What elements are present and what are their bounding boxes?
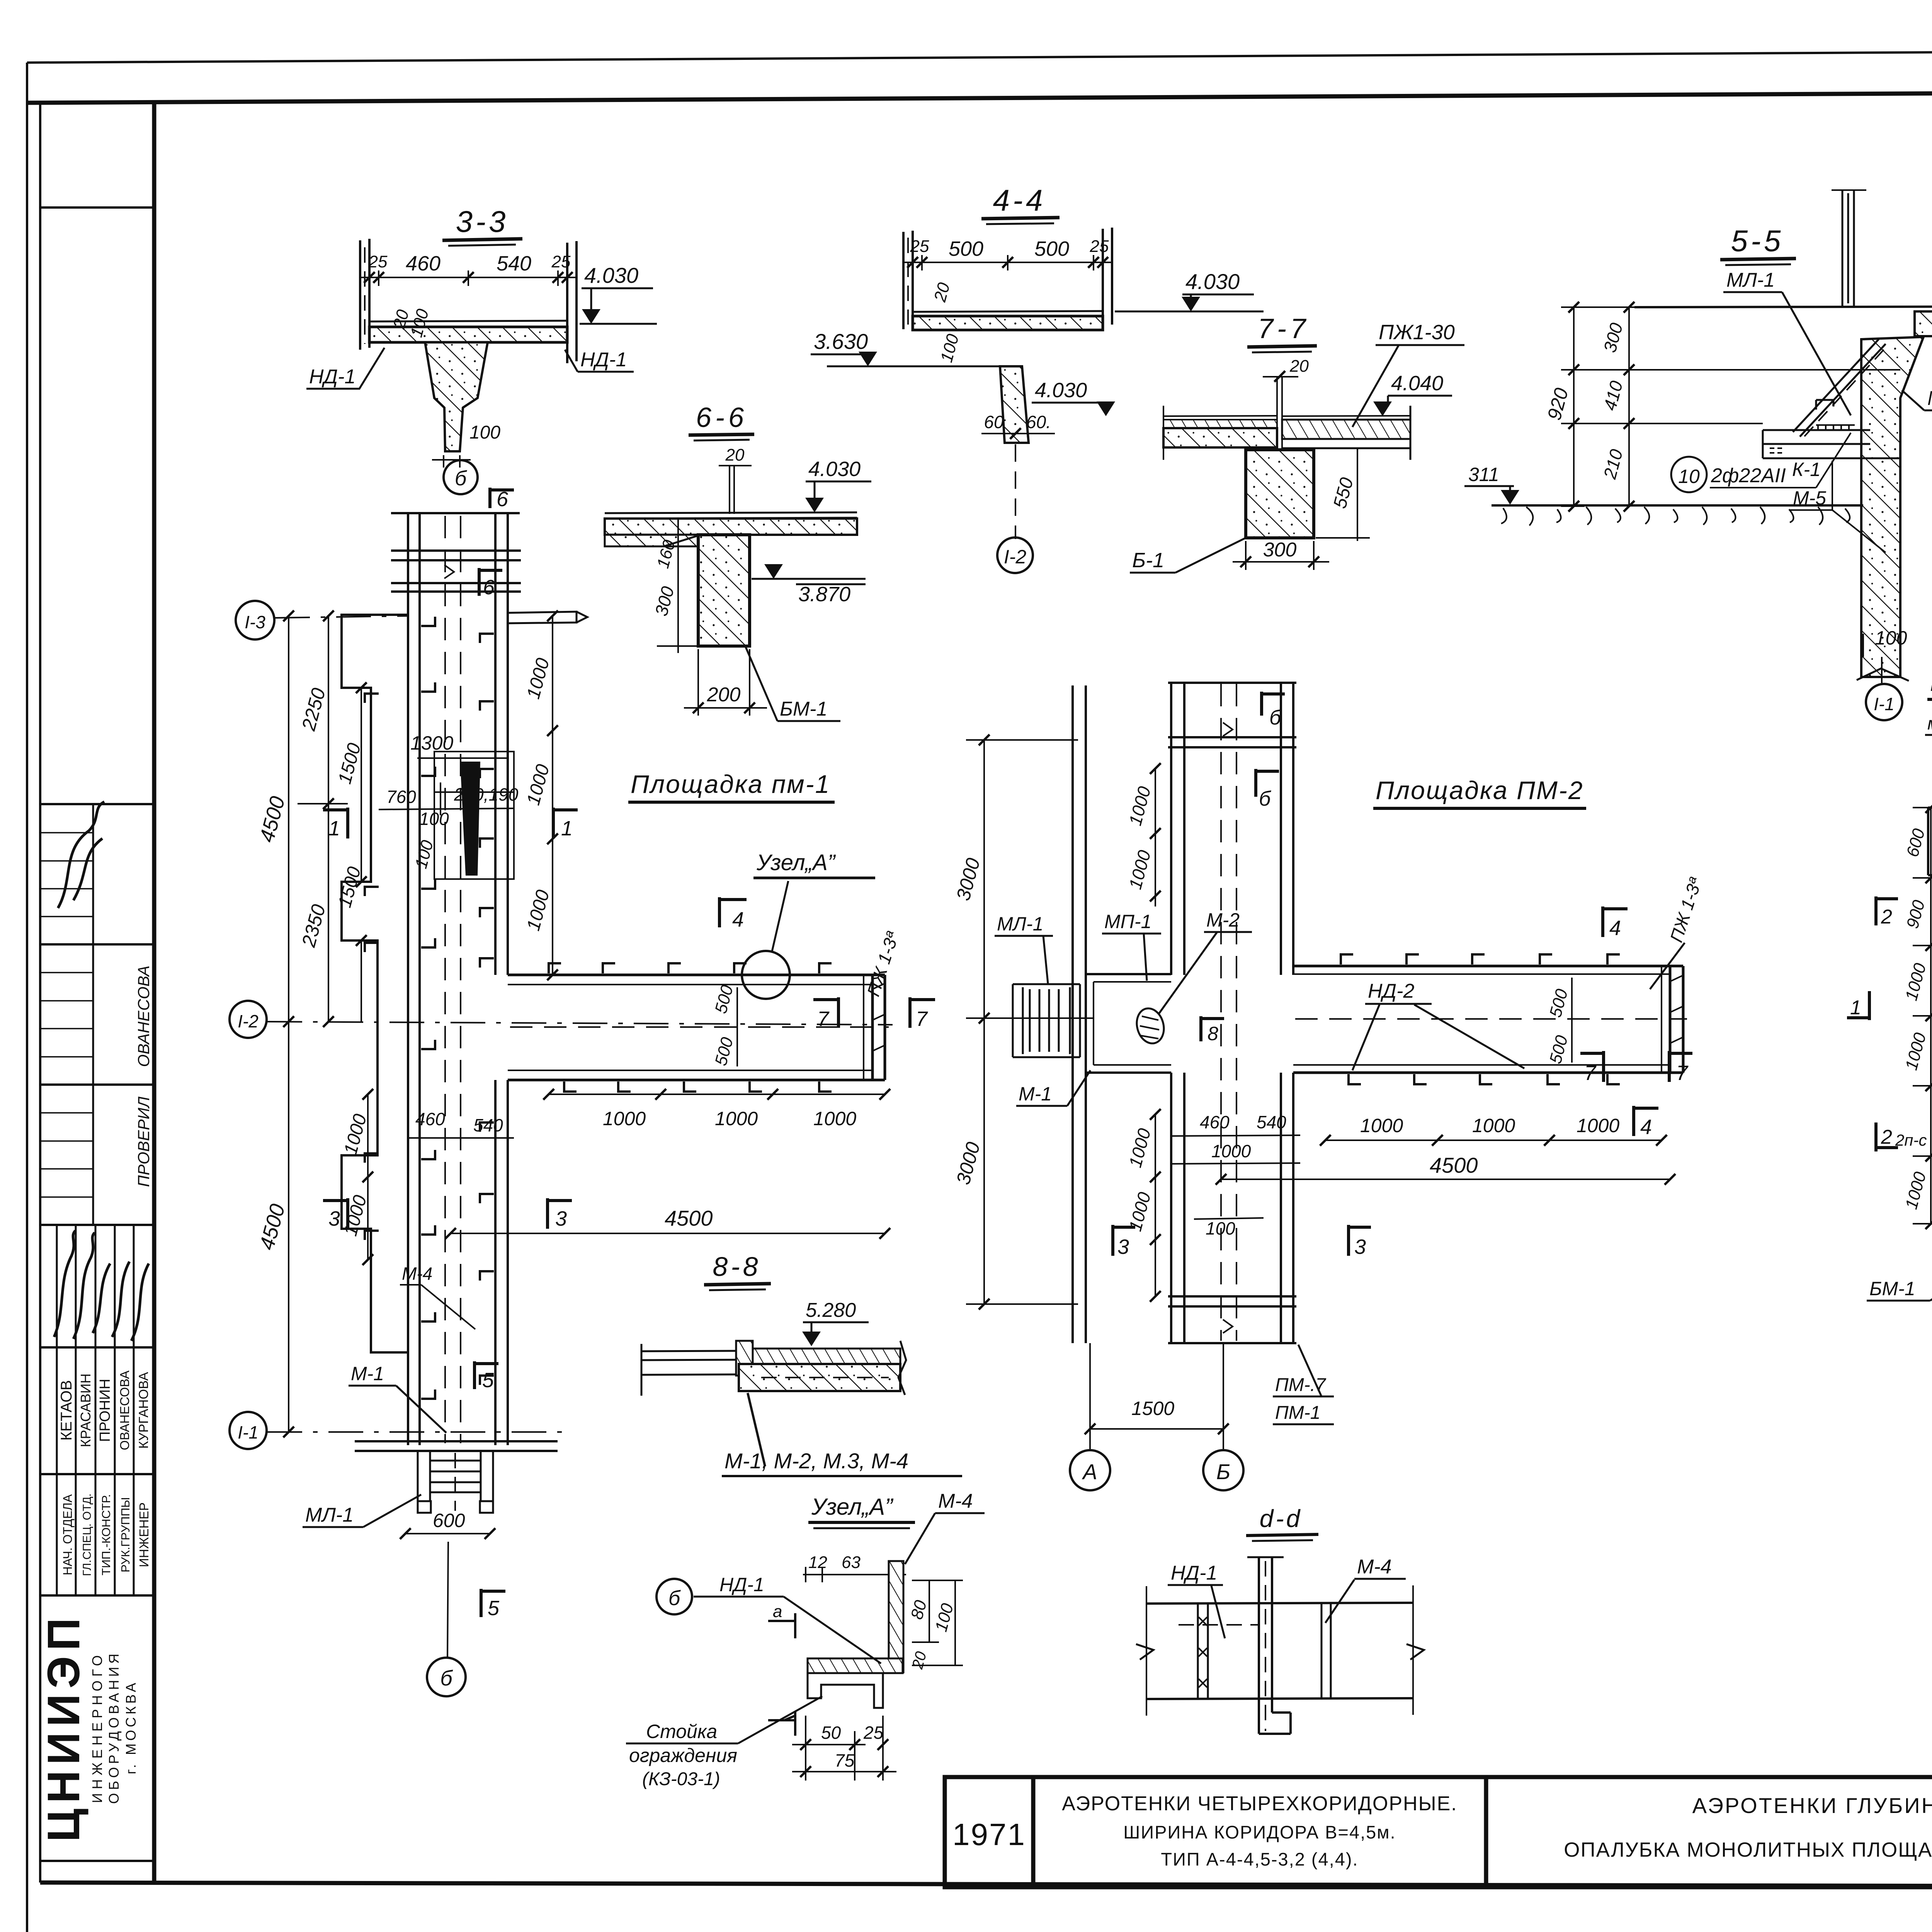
svg-text:2: 2 bbox=[1881, 1126, 1892, 1148]
svg-text:540: 540 bbox=[497, 252, 531, 275]
svg-text:500: 500 bbox=[1034, 237, 1069, 260]
svg-text:5.280: 5.280 bbox=[806, 1299, 856, 1321]
axis circle I-3 bbox=[236, 601, 274, 639]
svg-text:75: 75 bbox=[835, 1750, 855, 1770]
узел А horizontal flange НД-1 bbox=[808, 1658, 903, 1673]
plan ПМ-2 stair opening МЛ-1 bbox=[1013, 984, 1080, 1057]
plan ПМ-2 section mark 4 upper bbox=[1603, 906, 1628, 937]
svg-text:1000: 1000 bbox=[1577, 1115, 1619, 1136]
plan ПМ-3 section mark 1 marks bbox=[1847, 991, 1869, 1020]
svg-text:М-2: М-2 bbox=[1206, 909, 1240, 931]
svg-text:600: 600 bbox=[433, 1510, 465, 1531]
plan ПМ-1 section mark 7 right bbox=[910, 997, 935, 1028]
svg-text:20: 20 bbox=[1289, 357, 1309, 376]
section 5-5 wall with flare bbox=[1861, 337, 1923, 677]
svg-text:КЕТАОВ: КЕТАОВ bbox=[58, 1380, 75, 1441]
узел А channel profile bbox=[808, 1673, 883, 1708]
plan ПМ-2 landing strip bbox=[1293, 966, 1683, 1073]
svg-text:5-5: 5-5 bbox=[1731, 224, 1784, 258]
plan ПМ-1 break mark bbox=[444, 565, 454, 578]
svg-text:25: 25 bbox=[368, 252, 388, 271]
plan ПМ-2 corridor Б walls bbox=[1171, 683, 1184, 1343]
plan ПМ-2 section mark 8 bbox=[1201, 1016, 1224, 1041]
svg-text:20: 20 bbox=[725, 446, 745, 464]
plan ПМ-1 inner dim chain 1000s upper right bbox=[552, 616, 553, 975]
section 4-4 slab hatched bbox=[913, 316, 1103, 330]
узел А dims 80 100 20 bbox=[912, 1580, 963, 1665]
svg-text:7: 7 bbox=[817, 1007, 830, 1031]
svg-text:200: 200 bbox=[707, 684, 741, 706]
section 8-8 slab hatched bbox=[753, 1349, 900, 1364]
stamp signature squiggles bbox=[54, 802, 149, 1341]
svg-text:I-2: I-2 bbox=[1004, 546, 1027, 568]
svg-text:7-7: 7-7 bbox=[1258, 313, 1310, 344]
svg-text:3-3: 3-3 bbox=[456, 204, 509, 238]
svg-text:6: 6 bbox=[497, 488, 509, 511]
plan ПМ-2 section mark 4 lower bbox=[1634, 1106, 1658, 1136]
svg-text:М-4: М-4 bbox=[1357, 1556, 1392, 1578]
svg-text:М-4: М-4 bbox=[938, 1490, 973, 1512]
section d-d slab band bbox=[1146, 1603, 1413, 1699]
узел А circle б bbox=[656, 1579, 692, 1614]
svg-text:А: А bbox=[1082, 1459, 1097, 1484]
plan ПМ-1 embed hooks right wall bbox=[480, 634, 494, 1385]
svg-text:М-1: М-1 bbox=[1927, 387, 1932, 410]
svg-text:4: 4 bbox=[1609, 917, 1621, 940]
section 7-7 right slab ПЖ1-30 bbox=[1282, 416, 1410, 416]
plan ПМ-1 horizontal strip bbox=[508, 975, 885, 1080]
svg-text:7: 7 bbox=[1676, 1061, 1689, 1085]
section 5-5 dim chain 300 410 210 bbox=[1561, 307, 1900, 506]
plan ПМ-1 top cap bbox=[391, 512, 520, 514]
svg-text:РУК.ГРУППЫ: РУК.ГРУППЫ bbox=[119, 1497, 132, 1573]
section 5-5 top slab line bbox=[1634, 306, 1932, 307]
section 7-7 beam Б-1 bbox=[1246, 450, 1314, 538]
svg-text:Стойка: Стойка bbox=[646, 1721, 717, 1742]
svg-text:1000: 1000 bbox=[813, 1108, 856, 1129]
svg-text:100: 100 bbox=[469, 422, 500, 443]
section 7-7 dim 550 bbox=[1316, 448, 1370, 541]
svg-text:(КЗ-03-1): (КЗ-03-1) bbox=[642, 1769, 720, 1789]
svg-text:НД-1: НД-1 bbox=[580, 349, 627, 371]
svg-text:МП-1: МП-1 bbox=[1104, 911, 1151, 932]
svg-text:НАЧ. ОТДЕЛА: НАЧ. ОТДЕЛА bbox=[61, 1494, 75, 1575]
section 4-4 right wall bbox=[1103, 228, 1112, 327]
svg-text:5: 5 bbox=[488, 1597, 500, 1620]
section 4-4 dim line 25 500 500 25 bbox=[903, 255, 1112, 270]
svg-text:ГЛ.СПЕЦ. ОТД.: ГЛ.СПЕЦ. ОТД. bbox=[81, 1493, 94, 1576]
svg-text:ИНЖЕНЕРНОГО: ИНЖЕНЕРНОГО bbox=[89, 1651, 105, 1803]
svg-text:Площадка ПМ-3: Площадка ПМ-3 bbox=[1930, 670, 1932, 696]
svg-text:АЭРОТЕНКИ ГЛУБИНОЙ 3,2м.: АЭРОТЕНКИ ГЛУБИНОЙ 3,2м. bbox=[1692, 1793, 1932, 1818]
svg-text:Узел„А”: Узел„А” bbox=[811, 1494, 894, 1520]
plan ПМ-2 left chain 3000/3000 bbox=[966, 740, 1094, 1304]
svg-text:ПРОВЕРИЛ: ПРОВЕРИЛ bbox=[134, 1097, 153, 1187]
section 8-8 left steel deck bbox=[641, 1344, 739, 1396]
circles А Б above d-d bbox=[1090, 1406, 1223, 1449]
svg-text:М-1: М-1 bbox=[351, 1363, 384, 1384]
svg-text:4-4: 4-4 bbox=[993, 183, 1046, 217]
svg-text:ТИП.-КОНСТР.: ТИП.-КОНСТР. bbox=[99, 1494, 113, 1575]
plan ПМ-1 section mark 6 top bbox=[490, 488, 514, 508]
section 3-3 deck line bbox=[369, 321, 567, 321]
svg-text:М-1, М-2, М.3, М-4: М-1, М-2, М.3, М-4 bbox=[724, 1449, 908, 1473]
plan ПМ-3 left chain 600 900 1000 1000 1000 bbox=[1913, 808, 1932, 1224]
plan ПМ-1 right ledge at I-3 bbox=[508, 612, 587, 623]
plan ПМ-1 dim 1000x2 lower left bbox=[367, 1094, 369, 1260]
plan ПМ-1 section mark 4 upper bbox=[719, 897, 747, 927]
plan ПМ-1 section mark 5 bbox=[474, 1361, 498, 1389]
svg-text:Узел„А”: Узел„А” bbox=[756, 850, 836, 875]
plan ПМ-1 left wall bbox=[408, 513, 420, 1445]
svg-text:ПРОНИН: ПРОНИН bbox=[97, 1379, 113, 1442]
svg-text:1: 1 bbox=[561, 817, 573, 840]
section 4-4 deck line bbox=[913, 311, 1103, 312]
svg-text:а: а bbox=[773, 1602, 782, 1621]
section 3-3 node circle б bbox=[444, 460, 478, 494]
svg-text:60: 60 bbox=[984, 412, 1004, 432]
svg-text:б: б bbox=[455, 467, 467, 490]
svg-text:ПМ-1: ПМ-1 bbox=[1275, 1403, 1320, 1423]
plan ПМ-1 left outer stepped contour bbox=[342, 615, 408, 1352]
svg-text:НД-1: НД-1 bbox=[719, 1574, 764, 1595]
axis circle I-2 bbox=[997, 537, 1033, 573]
axis circle I-1 bbox=[230, 1412, 267, 1449]
svg-text:7: 7 bbox=[916, 1007, 928, 1031]
svg-text:К-1: К-1 bbox=[1792, 459, 1821, 480]
svg-text:1: 1 bbox=[1850, 997, 1861, 1019]
plan ПМ-1 section mark 3 left bbox=[323, 1198, 348, 1229]
svg-text:60.: 60. bbox=[1026, 412, 1051, 432]
section 5-5 rebar callout 10 2ф22АII bbox=[1671, 457, 1707, 492]
svg-text:БМ-1: БМ-1 bbox=[1869, 1278, 1915, 1299]
svg-text:250,190: 250,190 bbox=[454, 784, 519, 804]
section d-d right joint bbox=[1321, 1604, 1331, 1699]
svg-text:100: 100 bbox=[1206, 1218, 1235, 1238]
stamp rotated texts bbox=[38, 966, 153, 1842]
section d-d М-4 anchor bbox=[1259, 1557, 1291, 1734]
svg-text:НД-2: НД-2 bbox=[1368, 980, 1414, 1002]
svg-text:Б: Б bbox=[1216, 1459, 1230, 1484]
svg-text:БМ-1: БМ-1 bbox=[780, 698, 827, 720]
plan ПМ-2 dim 1000x3 bbox=[1325, 1139, 1662, 1141]
section 6-6 slab band bbox=[605, 519, 857, 535]
section 5-5 guard post above bbox=[1842, 189, 1854, 307]
svg-text:КРАСАВИН: КРАСАВИН bbox=[78, 1374, 94, 1447]
svg-text:2: 2 bbox=[1881, 906, 1892, 928]
svg-text:I-1: I-1 bbox=[1874, 694, 1895, 714]
svg-text:1000: 1000 bbox=[1211, 1141, 1251, 1161]
section 6-6 level 3.870 bbox=[764, 564, 783, 579]
svg-text:КУРГАНОВА: КУРГАНОВА bbox=[136, 1372, 151, 1449]
section 4-4 wall wedge below bbox=[1000, 366, 1029, 443]
plan ПМ-1 dim chain 4500/4500 bbox=[288, 616, 289, 1432]
узел А mark а upper bbox=[768, 1613, 795, 1638]
svg-text:Площадка пм-1: Площадка пм-1 bbox=[631, 770, 830, 798]
plan ПМ-2 strip hooks bbox=[1341, 954, 1620, 1084]
section 5-5 slab hatched right bbox=[1915, 311, 1932, 336]
plan ПМ-1 axis to б bbox=[447, 1542, 448, 1658]
plan ПМ-3 left bay bbox=[1928, 808, 1932, 875]
svg-text:1300: 1300 bbox=[410, 732, 453, 754]
svg-text:4.030: 4.030 bbox=[1185, 269, 1240, 294]
section 5-5 ground line bbox=[1492, 504, 1863, 507]
plan ПМ-2 М-2 blob bbox=[1133, 1005, 1167, 1046]
section 3-3 left wall bbox=[360, 239, 369, 350]
svg-text:4.030: 4.030 bbox=[1035, 379, 1087, 402]
svg-text:ЦНИИЭП: ЦНИИЭП bbox=[38, 1612, 89, 1842]
svg-text:760: 760 bbox=[386, 787, 416, 807]
plan ПМ-2 bottom bridges bbox=[1168, 1296, 1296, 1343]
svg-text:ОПАЛУБКА МОНОЛИТНЫХ ПЛОЩАДОК П: ОПАЛУБКА МОНОЛИТНЫХ ПЛОЩАДОК ПМ-1; ПМ-2;… bbox=[1564, 1838, 1932, 1861]
svg-text:d-d: d-d bbox=[1260, 1505, 1303, 1532]
svg-text:ПЖ1-30: ПЖ1-30 bbox=[1379, 321, 1455, 344]
plan ПМ-1 node circle on strip bbox=[742, 951, 790, 999]
svg-text:25: 25 bbox=[863, 1723, 884, 1743]
svg-text:НД-1: НД-1 bbox=[309, 366, 355, 388]
section 3-3 right wall bbox=[567, 241, 577, 363]
plan ПМ-1 dim 1000x3 below strip bbox=[549, 1094, 885, 1095]
svg-text:ОВАНЕСОВА: ОВАНЕСОВА bbox=[134, 966, 153, 1067]
svg-text:460: 460 bbox=[415, 1109, 445, 1129]
узел А mark а lower bbox=[768, 1711, 795, 1736]
svg-text:460: 460 bbox=[1200, 1112, 1230, 1132]
svg-text:6-6: 6-6 bbox=[696, 402, 748, 433]
section 3-3 dim 100 bottom bbox=[432, 455, 471, 468]
section 7-7 dim 300 bbox=[1233, 541, 1329, 570]
svg-text:ШИРИНА КОРИДОРА В=4,5м.: ШИРИНА КОРИДОРА В=4,5м. bbox=[1123, 1822, 1396, 1842]
plan ПМ-2 section mark 3 marks bbox=[1113, 1225, 1135, 1256]
section 6-6 left thicker slab bbox=[605, 535, 698, 546]
svg-text:4.030: 4.030 bbox=[808, 457, 861, 481]
svg-text:3.630: 3.630 bbox=[814, 329, 868, 354]
plan ПМ-1 right wall bbox=[495, 513, 508, 1445]
svg-text:1000: 1000 bbox=[603, 1108, 646, 1129]
svg-text:ИНЖЕНЕР: ИНЖЕНЕР bbox=[137, 1502, 151, 1567]
plan ПМ-2 top cap and bridges bbox=[1168, 683, 1296, 747]
section 5-5 bracket platform bbox=[1763, 430, 1900, 458]
section 6-6 dims 160 300 rotated bbox=[657, 519, 699, 653]
svg-text:10: 10 bbox=[1678, 466, 1700, 487]
plan ПМ-1 dim 4500 bottom bbox=[451, 1233, 885, 1234]
section 6-6 deck bbox=[605, 512, 857, 519]
svg-text:МЛ-1: МЛ-1 bbox=[1726, 269, 1775, 291]
svg-text:Б-1: Б-1 bbox=[1132, 549, 1164, 572]
plan ПМ-1 circle б bottom bbox=[427, 1658, 466, 1696]
section 3-3 rib bbox=[425, 342, 488, 451]
svg-text:АЭРОТЕНКИ ЧЕТЫРЕХКОРИДОРНЫЕ.: АЭРОТЕНКИ ЧЕТЫРЕХКОРИДОРНЫЕ. bbox=[1062, 1793, 1457, 1815]
svg-text:М-4: М-4 bbox=[402, 1264, 432, 1284]
svg-text:1500: 1500 bbox=[1131, 1398, 1174, 1419]
svg-text:4500: 4500 bbox=[1430, 1153, 1478, 1177]
svg-text:3.870: 3.870 bbox=[798, 583, 850, 606]
svg-text:300: 300 bbox=[1263, 539, 1297, 561]
svg-text:г. МОСКВА: г. МОСКВА bbox=[123, 1680, 139, 1774]
plan ПМ-2 section mark 7 marks bbox=[1580, 1051, 1604, 1082]
svg-text:3: 3 bbox=[1354, 1235, 1366, 1259]
svg-text:1: 1 bbox=[328, 817, 340, 840]
plan ПМ-1 section mark 7 left bbox=[813, 997, 838, 1028]
plan ПМ-1 upper bridges bbox=[391, 551, 521, 592]
svg-text:б: б bbox=[1259, 787, 1271, 810]
svg-text:25: 25 bbox=[910, 237, 929, 256]
svg-text:7: 7 bbox=[1584, 1061, 1597, 1085]
bottom title block bbox=[945, 1777, 1932, 1887]
svg-text:63: 63 bbox=[842, 1553, 861, 1572]
svg-text:5: 5 bbox=[482, 1369, 494, 1392]
axis circle I-2 bbox=[230, 1001, 267, 1038]
plan ПМ-1 dim chain 1500/1500 bbox=[361, 688, 362, 1022]
plan ПМ-1 strip end plate bbox=[863, 975, 864, 1080]
узел А dims 50 25 75 bbox=[792, 1716, 896, 1781]
svg-text:1000: 1000 bbox=[1472, 1115, 1515, 1136]
svg-text:3: 3 bbox=[555, 1207, 567, 1230]
svg-text:500: 500 bbox=[949, 237, 983, 260]
plan ПМ-1 bottom landing bbox=[355, 1441, 558, 1451]
svg-text:4: 4 bbox=[1640, 1116, 1652, 1139]
svg-text:4: 4 bbox=[732, 908, 744, 931]
section 6-6 dim 200 bbox=[684, 649, 767, 716]
svg-text:1000: 1000 bbox=[715, 1108, 758, 1129]
plan ПМ-1 section mark 3 right bbox=[548, 1198, 572, 1229]
plan ПМ-1 center axis dashed bbox=[445, 516, 461, 1443]
axis circle I-1 under 5-5 bbox=[1866, 684, 1902, 720]
svg-text:б: б bbox=[1269, 706, 1282, 729]
plan ПМ-1 black wedge opening bbox=[434, 752, 514, 879]
svg-text:540: 540 bbox=[1257, 1112, 1286, 1132]
svg-text:540: 540 bbox=[473, 1115, 503, 1135]
svg-text:1000: 1000 bbox=[1360, 1115, 1403, 1136]
svg-text:ограждения: ограждения bbox=[629, 1745, 737, 1766]
svg-text:I-1: I-1 bbox=[238, 1422, 259, 1442]
plan ПМ-2 strip end plate bbox=[1661, 966, 1662, 1073]
svg-text:3: 3 bbox=[1117, 1235, 1129, 1259]
svg-text:М-5: М-5 bbox=[1793, 487, 1826, 509]
plan ПМ-1 embed hooks left wall bbox=[365, 617, 435, 1399]
svg-text:100: 100 bbox=[1875, 627, 1907, 649]
section 4-4 dim 60 60 bbox=[981, 433, 1055, 434]
plan ПМ-1 section mark 5 lower bbox=[481, 1589, 505, 1617]
svg-text:25: 25 bbox=[551, 252, 571, 271]
plan ПМ-1 stair МЛ-1 bbox=[418, 1451, 493, 1513]
svg-text:мп-3: мп-3 bbox=[1927, 713, 1932, 733]
svg-text:4.030: 4.030 bbox=[584, 263, 638, 287]
svg-text:6: 6 bbox=[483, 576, 495, 599]
svg-text:460: 460 bbox=[406, 252, 440, 275]
plan ПМ-1 section mark 1 left bbox=[323, 808, 348, 838]
section 5-5 ladder diagonal МЛ-1 bbox=[1793, 339, 1886, 437]
svg-text:25: 25 bbox=[1090, 237, 1109, 256]
left side stamp column bbox=[40, 103, 154, 1883]
svg-text:М-1: М-1 bbox=[1019, 1083, 1052, 1105]
stamp five person strips bbox=[57, 1225, 134, 1595]
plan ПМ-2 wall axis А bbox=[1073, 685, 1086, 1343]
svg-text:2ф22АII: 2ф22АII bbox=[1711, 464, 1786, 487]
svg-text:100: 100 bbox=[419, 809, 449, 829]
svg-text:НД-1: НД-1 bbox=[1171, 1562, 1217, 1584]
svg-text:4500: 4500 bbox=[665, 1206, 713, 1230]
svg-text:б: б bbox=[668, 1587, 681, 1610]
svg-text:Площадка ПМ-2: Площадка ПМ-2 bbox=[1376, 776, 1584, 804]
section 6-6 downstand block БМ-1 bbox=[698, 535, 750, 646]
svg-text:8-8: 8-8 bbox=[713, 1252, 761, 1282]
svg-text:МЛ-1: МЛ-1 bbox=[305, 1504, 354, 1526]
plan ПМ-2 inner chain 1000s bbox=[1155, 769, 1156, 1296]
section 5-5 wall lower break bbox=[1857, 668, 1909, 681]
svg-text:ОБОРУДОВАНИЯ: ОБОРУДОВАНИЯ bbox=[106, 1651, 122, 1804]
section 4-4 left wall bbox=[903, 231, 913, 329]
svg-text:2п-с: 2п-с bbox=[1895, 1131, 1927, 1149]
section 8-8 bent plate bbox=[736, 1341, 753, 1376]
svg-text:ОВАНЕСОВА: ОВАНЕСОВА bbox=[117, 1371, 132, 1450]
svg-text:12: 12 bbox=[808, 1553, 827, 1572]
plan ПМ-2 left landing between А and Б bbox=[1086, 974, 1171, 1073]
plan ПМ-2 dim 4500 bbox=[1221, 1179, 1670, 1180]
svg-text:311: 311 bbox=[1468, 464, 1499, 485]
svg-text:б: б bbox=[440, 1666, 453, 1690]
section 7-7 left slab bbox=[1163, 416, 1277, 416]
section d-d НД-1 joint bbox=[1198, 1604, 1208, 1699]
svg-text:4.040: 4.040 bbox=[1391, 372, 1443, 395]
svg-text:50: 50 bbox=[821, 1723, 841, 1743]
svg-text:8: 8 bbox=[1207, 1023, 1218, 1044]
plan ПМ-3 section mark 2 marks bbox=[1876, 896, 1898, 925]
svg-text:3: 3 bbox=[328, 1207, 340, 1230]
plan ПМ-1 section mark 1 right bbox=[553, 808, 578, 838]
узел А vertical angle М-4 bbox=[889, 1561, 903, 1672]
svg-text:I-2: I-2 bbox=[238, 1011, 259, 1031]
plan ПМ-2 section mark б top bbox=[1262, 692, 1285, 716]
svg-text:МЛ-1: МЛ-1 bbox=[997, 913, 1043, 935]
svg-text:I-3: I-3 bbox=[245, 612, 265, 632]
plan ПМ-1 strip hooks top bbox=[549, 963, 832, 1092]
svg-text:ТИП А-4-4,5-3,2 (4,4).: ТИП А-4-4,5-3,2 (4,4). bbox=[1161, 1849, 1358, 1869]
svg-text:1971: 1971 bbox=[952, 1817, 1026, 1852]
stamp small row lines bbox=[40, 804, 93, 1225]
section 3-3 slab hatched bbox=[369, 327, 567, 342]
section 3-3 dim line 25 460 540 25 bbox=[360, 270, 577, 286]
plan ПМ-1 dim chain 2250/2350 bbox=[298, 616, 348, 1022]
